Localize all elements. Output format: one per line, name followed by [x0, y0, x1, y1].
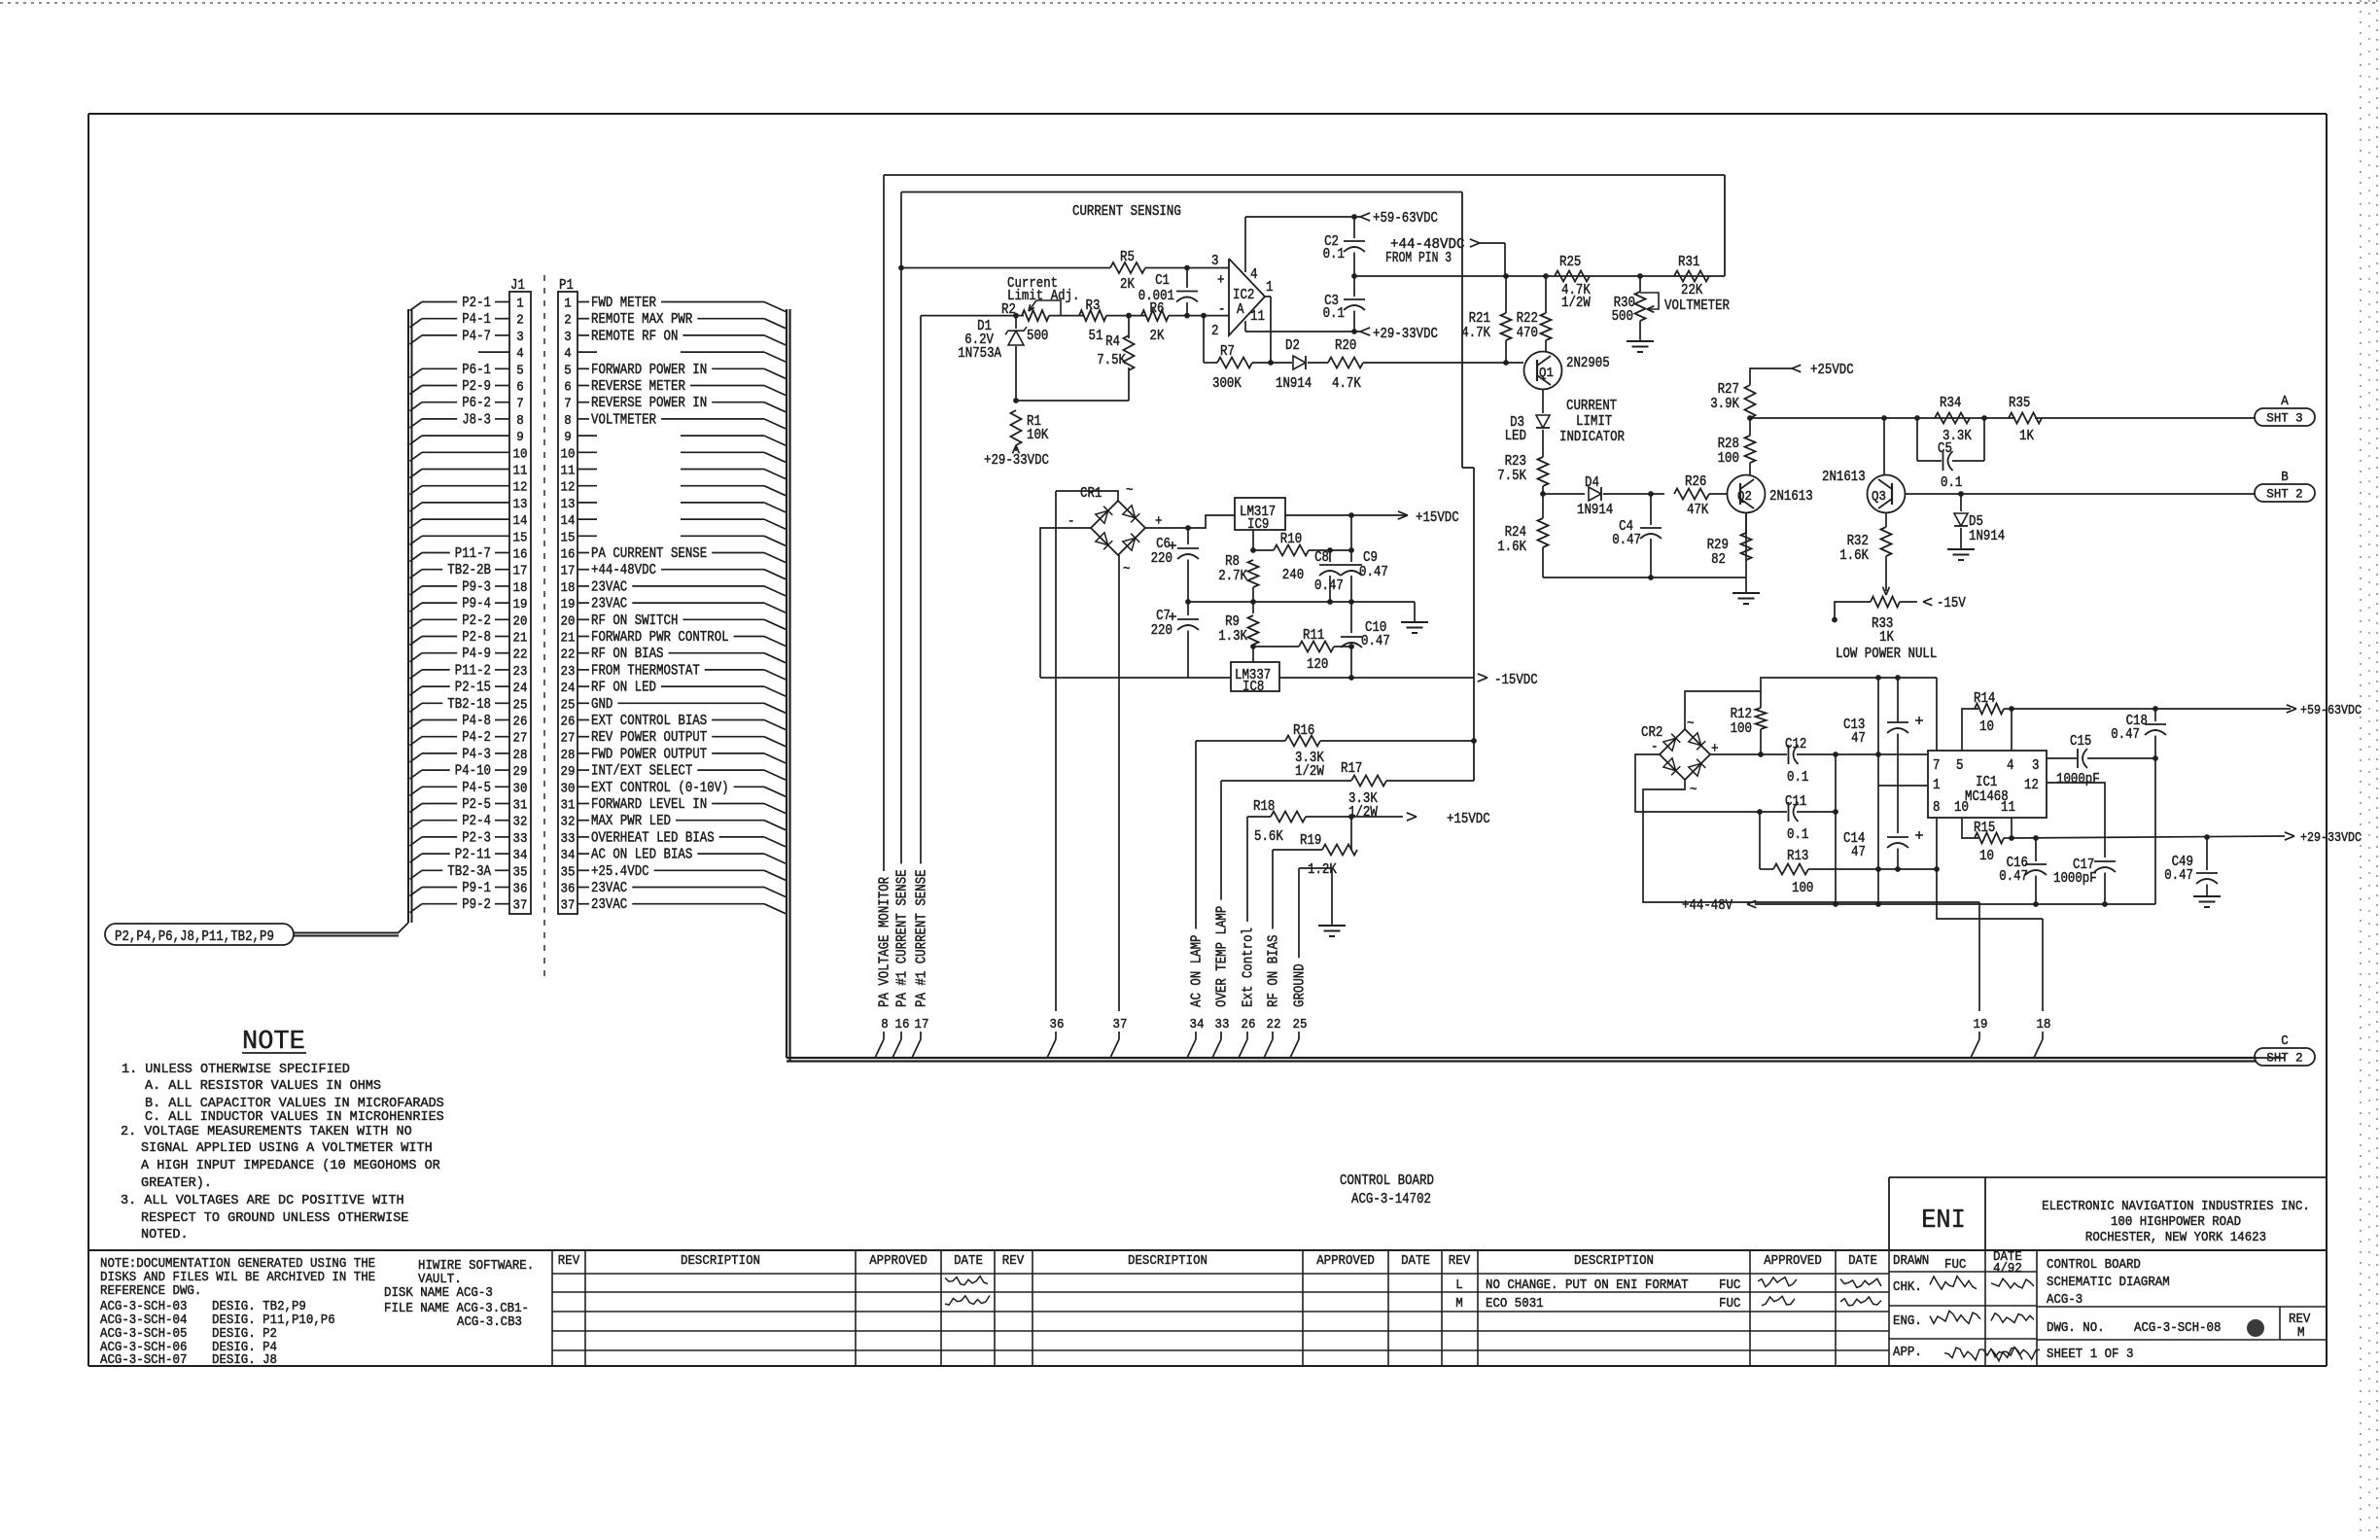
- svg-text:26: 26: [1242, 1017, 1256, 1032]
- svg-text:1: 1: [1266, 280, 1274, 296]
- svg-text:ENG.: ENG.: [1893, 1314, 1922, 1329]
- svg-text:31: 31: [561, 798, 576, 814]
- svg-text:PA #1 CURRENT SENSE: PA #1 CURRENT SENSE: [915, 869, 930, 1007]
- svg-text:8: 8: [1933, 800, 1941, 816]
- svg-text:P11-7: P11-7: [455, 546, 491, 562]
- svg-text:DESCRIPTION: DESCRIPTION: [1128, 1254, 1207, 1269]
- svg-text:P2-3: P2-3: [462, 830, 491, 846]
- svg-text:~: ~: [1690, 783, 1697, 798]
- svg-text:ROCHESTER, NEW YORK 14623: ROCHESTER, NEW YORK 14623: [2085, 1231, 2266, 1245]
- svg-text:APP.: APP.: [1893, 1346, 1922, 1360]
- svg-text:33: 33: [561, 831, 576, 847]
- svg-text:20: 20: [561, 613, 576, 629]
- svg-text:GREATER).: GREATER).: [141, 1175, 212, 1191]
- svg-text:22: 22: [513, 647, 528, 663]
- svg-text:C1: C1: [1155, 273, 1170, 289]
- svg-text:C5: C5: [1938, 441, 1952, 457]
- svg-text:LED: LED: [1505, 429, 1526, 444]
- svg-text:5: 5: [516, 363, 524, 378]
- svg-text:-15VDC: -15VDC: [1494, 673, 1538, 688]
- svg-text:9: 9: [564, 430, 572, 445]
- svg-text:1K: 1K: [1879, 630, 1894, 646]
- svg-text:~: ~: [1126, 483, 1134, 499]
- svg-text:4: 4: [516, 346, 524, 362]
- svg-text:FUC: FUC: [1944, 1258, 1966, 1273]
- svg-text:+25VDC: +25VDC: [1810, 363, 1854, 378]
- svg-text:P2,P4,P6,J8,P11,TB2,P9: P2,P4,P6,J8,P11,TB2,P9: [115, 929, 274, 945]
- svg-text:NOTED.: NOTED.: [141, 1227, 189, 1242]
- svg-text:15: 15: [513, 530, 528, 545]
- svg-text:FORWARD POWER IN: FORWARD POWER IN: [591, 363, 707, 378]
- svg-text:P9-3: P9-3: [462, 579, 491, 595]
- svg-text:Q1: Q1: [1539, 367, 1554, 381]
- svg-text:36: 36: [561, 882, 576, 897]
- svg-text:ECO 5031: ECO 5031: [1486, 1297, 1544, 1312]
- svg-text:P2-8: P2-8: [462, 630, 491, 646]
- svg-text:R26: R26: [1685, 474, 1706, 490]
- svg-text:C15: C15: [2070, 734, 2091, 750]
- svg-text:P4-3: P4-3: [462, 747, 491, 762]
- svg-text:R13: R13: [1787, 849, 1808, 864]
- svg-text:B: B: [2281, 471, 2289, 485]
- svg-text:P2-11: P2-11: [455, 848, 491, 863]
- svg-text:7.5K: 7.5K: [1497, 469, 1526, 484]
- svg-text:1: 1: [564, 297, 572, 312]
- svg-text:16: 16: [895, 1017, 910, 1032]
- svg-text:APPROVED: APPROVED: [1764, 1254, 1822, 1269]
- svg-text:C9: C9: [1363, 550, 1378, 566]
- svg-text:11: 11: [561, 464, 576, 479]
- svg-text:82: 82: [1711, 552, 1726, 568]
- svg-text:7: 7: [564, 397, 572, 412]
- svg-text:17: 17: [561, 564, 576, 579]
- svg-text:23VAC: 23VAC: [591, 881, 627, 896]
- svg-text:1: 1: [1933, 778, 1941, 793]
- svg-text:M: M: [2297, 1326, 2305, 1341]
- svg-text:P2-1: P2-1: [462, 296, 491, 311]
- svg-text:DATE: DATE: [1401, 1254, 1430, 1269]
- svg-text:AC ON LAMP: AC ON LAMP: [1190, 935, 1206, 1008]
- svg-text:R4: R4: [1105, 334, 1120, 350]
- svg-text:INDICATOR: INDICATOR: [1559, 430, 1625, 445]
- svg-text:DESIG. J8: DESIG. J8: [212, 1353, 277, 1368]
- svg-text:11: 11: [1250, 309, 1265, 325]
- svg-text:30: 30: [513, 781, 528, 796]
- svg-text:13: 13: [561, 497, 576, 512]
- svg-text:2: 2: [564, 313, 572, 329]
- svg-text:CHK.: CHK.: [1893, 1280, 1922, 1295]
- svg-text:19: 19: [1974, 1017, 1988, 1032]
- svg-text:25: 25: [1293, 1017, 1308, 1032]
- svg-text:NO CHANGE. PUT ON ENI FORMAT: NO CHANGE. PUT ON ENI FORMAT: [1486, 1278, 1689, 1293]
- svg-text:4/92: 4/92: [1993, 1262, 2022, 1277]
- svg-text:34: 34: [561, 848, 576, 863]
- svg-text:REVERSE POWER IN: REVERSE POWER IN: [591, 396, 707, 411]
- svg-text:37: 37: [1113, 1017, 1128, 1032]
- svg-text:AC ON LED BIAS: AC ON LED BIAS: [591, 848, 692, 863]
- svg-text:FROM PIN 3: FROM PIN 3: [1385, 251, 1452, 266]
- svg-text:DESIG. P11,P10,P6: DESIG. P11,P10,P6: [212, 1313, 335, 1328]
- svg-text:ACG-3-SCH-07: ACG-3-SCH-07: [100, 1353, 187, 1368]
- svg-text:500: 500: [1027, 329, 1048, 344]
- svg-text:DESCRIPTION: DESCRIPTION: [681, 1254, 760, 1269]
- svg-text:D2: D2: [1285, 338, 1300, 354]
- svg-text:SHT 2: SHT 2: [2266, 1052, 2302, 1066]
- svg-text:1.6K: 1.6K: [1839, 548, 1869, 564]
- svg-text:R11: R11: [1303, 628, 1324, 644]
- svg-text:0.47: 0.47: [1999, 869, 2028, 885]
- svg-text:22K: 22K: [1681, 283, 1703, 298]
- svg-text:16: 16: [561, 547, 576, 563]
- svg-text:C7: C7: [1156, 609, 1171, 624]
- svg-text:A: A: [1237, 302, 1244, 318]
- svg-text:32: 32: [513, 815, 528, 830]
- svg-text:Limit Adj.: Limit Adj.: [1007, 289, 1080, 304]
- svg-text:+29-33VDC: +29-33VDC: [1373, 327, 1438, 342]
- svg-text:470: 470: [1517, 326, 1538, 341]
- svg-text:12: 12: [561, 480, 576, 496]
- svg-text:3. ALL VOLTAGES ARE DC POSITIV: 3. ALL VOLTAGES ARE DC POSITIVE WITH: [121, 1193, 404, 1208]
- svg-text:PA VOLTAGE MONITOR: PA VOLTAGE MONITOR: [878, 877, 893, 1007]
- svg-text:ACG-3-14702: ACG-3-14702: [1351, 1192, 1431, 1207]
- svg-text:47: 47: [1851, 731, 1866, 747]
- svg-text:18: 18: [2037, 1017, 2051, 1032]
- svg-text:D4: D4: [1585, 475, 1599, 491]
- svg-text:10K: 10K: [1027, 428, 1049, 443]
- svg-text:P4-9: P4-9: [462, 647, 491, 662]
- svg-text:LOW POWER NULL: LOW POWER NULL: [1836, 647, 1937, 662]
- svg-text:24: 24: [513, 681, 528, 696]
- svg-text:240: 240: [1282, 568, 1304, 583]
- svg-text:ACG-3: ACG-3: [2047, 1293, 2082, 1308]
- svg-text:HIWIRE SOFTWARE.: HIWIRE SOFTWARE.: [418, 1259, 534, 1274]
- svg-text:IC2: IC2: [1233, 288, 1254, 303]
- svg-text:FWD METER: FWD METER: [591, 296, 656, 311]
- svg-text:21: 21: [513, 631, 528, 647]
- svg-text:P4-1: P4-1: [462, 312, 491, 328]
- svg-text:ENI: ENI: [1921, 1207, 1966, 1236]
- svg-text:6: 6: [564, 380, 572, 396]
- svg-text:IC8: IC8: [1242, 680, 1264, 695]
- svg-text:R32: R32: [1847, 534, 1869, 549]
- svg-text:27: 27: [561, 731, 576, 747]
- svg-text:10: 10: [1954, 800, 1969, 816]
- svg-text:21: 21: [561, 631, 576, 647]
- svg-text:A HIGH INPUT IMPEDANCE (10 MEG: A HIGH INPUT IMPEDANCE (10 MEGOHOMS OR: [141, 1158, 440, 1173]
- svg-text:P2-5: P2-5: [462, 797, 491, 813]
- svg-text:100 HIGHPOWER ROAD: 100 HIGHPOWER ROAD: [2111, 1215, 2241, 1230]
- svg-text:36: 36: [1050, 1017, 1065, 1032]
- svg-text:+59-63VDC: +59-63VDC: [1373, 211, 1438, 227]
- svg-text:9: 9: [516, 430, 524, 445]
- svg-text:22: 22: [561, 647, 576, 663]
- svg-text:0.47: 0.47: [2111, 727, 2140, 743]
- svg-text:51: 51: [1089, 329, 1103, 344]
- svg-text:1N914: 1N914: [1577, 503, 1613, 518]
- svg-text:37: 37: [513, 898, 528, 914]
- svg-text:RF ON LED: RF ON LED: [591, 681, 656, 696]
- svg-text:REV POWER OUTPUT: REV POWER OUTPUT: [591, 730, 707, 746]
- svg-text:31: 31: [513, 798, 528, 814]
- svg-text:CURRENT: CURRENT: [1566, 399, 1617, 414]
- svg-text:ACG-3-SCH-03: ACG-3-SCH-03: [100, 1300, 187, 1314]
- svg-text:P6-1: P6-1: [462, 363, 491, 378]
- svg-text:+29-33VDC: +29-33VDC: [2300, 831, 2362, 846]
- svg-text:10: 10: [561, 446, 576, 462]
- svg-text:0.47: 0.47: [1314, 578, 1344, 594]
- svg-text:P4-10: P4-10: [455, 764, 491, 780]
- svg-text:33: 33: [1215, 1017, 1230, 1032]
- svg-text:DATE: DATE: [1848, 1254, 1877, 1269]
- svg-text:C. ALL INDUCTOR VALUES IN MICR: C. ALL INDUCTOR VALUES IN MICROHENRIES: [145, 1109, 444, 1125]
- svg-text:APPROVED: APPROVED: [1316, 1254, 1375, 1269]
- svg-text:INT/EXT SELECT: INT/EXT SELECT: [591, 764, 693, 780]
- svg-text:REFERENCE DWG.: REFERENCE DWG.: [100, 1284, 201, 1299]
- svg-text:1.3K: 1.3K: [1218, 629, 1247, 645]
- svg-text:DISK NAME ACG-3: DISK NAME ACG-3: [384, 1286, 493, 1301]
- svg-text:P9-1: P9-1: [462, 881, 491, 896]
- svg-text:3: 3: [564, 330, 572, 345]
- svg-text:+15VDC: +15VDC: [1416, 510, 1459, 526]
- svg-text:1000pF: 1000pF: [2056, 772, 2100, 787]
- svg-text:14: 14: [561, 513, 576, 529]
- svg-text:ACG-3-SCH-08: ACG-3-SCH-08: [2134, 1321, 2221, 1336]
- svg-text:1/2W: 1/2W: [1561, 296, 1591, 311]
- svg-text:R9: R9: [1225, 614, 1240, 630]
- svg-text:1. UNLESS OTHERWISE SPECIFIED: 1. UNLESS OTHERWISE SPECIFIED: [122, 1062, 350, 1077]
- svg-text:-: -: [1218, 300, 1226, 318]
- svg-text:NOTE:DOCUMENTATION GENERATED U: NOTE:DOCUMENTATION GENERATED USING THE: [100, 1257, 375, 1272]
- svg-text:D5: D5: [1969, 514, 1983, 530]
- svg-text:1/2W: 1/2W: [1295, 764, 1324, 780]
- svg-text:P1: P1: [559, 278, 574, 294]
- svg-text:300K: 300K: [1212, 376, 1242, 392]
- svg-text:SHT 2: SHT 2: [2266, 488, 2302, 502]
- svg-text:DESIG. TB2,P9: DESIG. TB2,P9: [212, 1300, 306, 1314]
- svg-text:CURRENT SENSING: CURRENT SENSING: [1072, 204, 1181, 220]
- svg-text:R19: R19: [1300, 833, 1321, 849]
- svg-text:+44-48VDC: +44-48VDC: [591, 563, 656, 578]
- svg-text:CONTROL BOARD: CONTROL BOARD: [2047, 1258, 2141, 1273]
- svg-text:VOLTMETER: VOLTMETER: [591, 412, 656, 428]
- svg-text:~: ~: [1687, 717, 1695, 732]
- svg-text:8: 8: [516, 413, 524, 429]
- svg-text:P2-9: P2-9: [462, 379, 491, 395]
- svg-text:OVERHEAT LED BIAS: OVERHEAT LED BIAS: [591, 830, 715, 846]
- svg-text:2: 2: [1211, 324, 1219, 339]
- svg-text:DWG. NO.: DWG. NO.: [2047, 1321, 2105, 1336]
- svg-text:5: 5: [1956, 758, 1964, 774]
- svg-text:FORWARD PWR CONTROL: FORWARD PWR CONTROL: [591, 630, 729, 646]
- svg-text:220: 220: [1151, 623, 1172, 639]
- svg-text:+44-48V: +44-48V: [1682, 898, 1732, 914]
- svg-text:0.1: 0.1: [1323, 306, 1345, 322]
- svg-text:EXT CONTROL BIAS: EXT CONTROL BIAS: [591, 714, 707, 729]
- svg-text:6: 6: [516, 380, 524, 396]
- svg-text:R3: R3: [1086, 298, 1101, 314]
- svg-text:MAX PWR LED: MAX PWR LED: [591, 814, 671, 829]
- svg-text:34: 34: [513, 848, 528, 863]
- svg-text:+25.4VDC: +25.4VDC: [591, 864, 649, 880]
- svg-text:DRAWN: DRAWN: [1893, 1254, 1929, 1269]
- svg-text:100: 100: [1792, 881, 1813, 896]
- svg-text:C12: C12: [1785, 737, 1806, 752]
- svg-text:R27: R27: [1718, 382, 1739, 398]
- svg-text:36: 36: [513, 882, 528, 897]
- svg-text:14: 14: [513, 513, 528, 529]
- svg-text:3.9K: 3.9K: [1710, 397, 1739, 412]
- svg-text:PA #1 CURRENT SENSE: PA #1 CURRENT SENSE: [895, 869, 911, 1007]
- svg-text:RF ON BIAS: RF ON BIAS: [591, 647, 664, 662]
- svg-text:RF ON SWITCH: RF ON SWITCH: [591, 613, 678, 629]
- svg-text:C11: C11: [1785, 794, 1806, 810]
- svg-text:32: 32: [561, 815, 576, 830]
- svg-text:1000pF: 1000pF: [2053, 871, 2097, 887]
- svg-text:26: 26: [561, 715, 576, 730]
- svg-text:Q3: Q3: [1872, 490, 1886, 505]
- svg-text:2. VOLTAGE MEASUREMENTS TAKEN: 2. VOLTAGE MEASUREMENTS TAKEN WITH NO: [121, 1124, 412, 1139]
- svg-text:7: 7: [1933, 758, 1941, 774]
- svg-text:SIGNAL APPLIED USING A VOLTMET: SIGNAL APPLIED USING A VOLTMETER WITH: [141, 1140, 433, 1156]
- svg-text:3: 3: [516, 330, 524, 345]
- svg-text:20: 20: [513, 613, 528, 629]
- svg-text:SCHEMATIC DIAGRAM: SCHEMATIC DIAGRAM: [2047, 1276, 2170, 1290]
- svg-text:23: 23: [561, 664, 576, 680]
- svg-text:12: 12: [513, 480, 528, 496]
- svg-text:P2-2: P2-2: [462, 613, 491, 629]
- svg-text:FUC: FUC: [1719, 1278, 1740, 1293]
- svg-text:APPROVED: APPROVED: [869, 1254, 927, 1269]
- svg-text:0.47: 0.47: [1359, 565, 1388, 580]
- svg-text:TB2-18: TB2-18: [447, 697, 491, 713]
- svg-text:4: 4: [1250, 267, 1258, 283]
- svg-text:RESPECT TO GROUND UNLESS OTHER: RESPECT TO GROUND UNLESS OTHERWISE: [141, 1210, 408, 1226]
- svg-text:R29: R29: [1707, 538, 1729, 553]
- svg-text:120: 120: [1307, 657, 1328, 673]
- svg-text:23VAC: 23VAC: [591, 897, 627, 913]
- svg-text:L: L: [1455, 1278, 1463, 1293]
- svg-text:2.7K: 2.7K: [1218, 569, 1247, 584]
- svg-text:4.7K: 4.7K: [1461, 326, 1490, 341]
- svg-text:RF ON BIAS: RF ON BIAS: [1267, 935, 1282, 1008]
- svg-text:SHEET 1 OF 3: SHEET 1 OF 3: [2047, 1347, 2133, 1362]
- svg-text:R5: R5: [1120, 250, 1135, 265]
- svg-text:R17: R17: [1341, 761, 1362, 777]
- svg-text:R15: R15: [1974, 821, 1995, 836]
- svg-text:7: 7: [516, 397, 524, 412]
- svg-text:P9-4: P9-4: [462, 597, 491, 612]
- svg-text:100: 100: [1718, 451, 1739, 467]
- svg-text:34: 34: [1190, 1017, 1205, 1032]
- svg-text:IC9: IC9: [1247, 517, 1269, 533]
- svg-text:DESIG. P2: DESIG. P2: [212, 1327, 277, 1342]
- svg-text:REV: REV: [558, 1254, 580, 1269]
- svg-text:~: ~: [1123, 562, 1131, 577]
- svg-text:23VAC: 23VAC: [591, 579, 627, 595]
- svg-text:3: 3: [1211, 254, 1219, 269]
- svg-text:47: 47: [1851, 845, 1866, 860]
- svg-text:1.6K: 1.6K: [1497, 540, 1526, 555]
- svg-text:EXT CONTROL (0-10V): EXT CONTROL (0-10V): [591, 781, 729, 796]
- svg-text:0.001: 0.001: [1138, 289, 1174, 304]
- svg-text:12: 12: [2024, 778, 2039, 793]
- svg-text:29: 29: [513, 764, 528, 780]
- svg-text:17: 17: [513, 564, 528, 579]
- svg-text:REMOTE MAX PWR: REMOTE MAX PWR: [591, 312, 693, 328]
- svg-text:19: 19: [561, 597, 576, 612]
- svg-text:2: 2: [516, 313, 524, 329]
- svg-text:R24: R24: [1505, 525, 1526, 541]
- svg-text:TB2-2B: TB2-2B: [447, 563, 491, 578]
- svg-text:16: 16: [513, 547, 528, 563]
- svg-text:4: 4: [564, 346, 572, 362]
- svg-text:PA CURRENT SENSE: PA CURRENT SENSE: [591, 546, 707, 562]
- svg-text:A. ALL RESISTOR VALUES IN OHMS: A. ALL RESISTOR VALUES IN OHMS: [145, 1078, 381, 1094]
- svg-text:R31: R31: [1678, 255, 1699, 270]
- svg-text:IC1: IC1: [1976, 775, 1997, 790]
- svg-text:P2-4: P2-4: [462, 814, 491, 829]
- svg-text:VOLTMETER: VOLTMETER: [1664, 298, 1730, 314]
- svg-text:18: 18: [513, 580, 528, 596]
- svg-text:FILE NAME ACG-3.CB1-: FILE NAME ACG-3.CB1-: [384, 1302, 529, 1316]
- svg-text:-: -: [1651, 739, 1659, 755]
- svg-text:R25: R25: [1559, 255, 1581, 270]
- svg-text:P4-7: P4-7: [462, 329, 491, 344]
- svg-text:C6: C6: [1156, 537, 1171, 552]
- svg-text:C: C: [2281, 1034, 2289, 1049]
- svg-text:0.1: 0.1: [1787, 770, 1808, 786]
- svg-text:FORWARD LEVEL IN: FORWARD LEVEL IN: [591, 797, 707, 813]
- svg-text:0.1: 0.1: [1787, 827, 1808, 843]
- svg-text:DESCRIPTION: DESCRIPTION: [1574, 1254, 1654, 1269]
- svg-text:REVERSE METER: REVERSE METER: [591, 379, 685, 395]
- svg-text:7.5K: 7.5K: [1097, 353, 1126, 368]
- svg-text:R20: R20: [1335, 338, 1356, 354]
- svg-text:FROM THERMOSTAT: FROM THERMOSTAT: [591, 663, 700, 679]
- svg-text:+15VDC: +15VDC: [1447, 812, 1490, 827]
- svg-text:1N914: 1N914: [1969, 529, 2005, 544]
- svg-text:10: 10: [513, 446, 528, 462]
- svg-text:3: 3: [2032, 758, 2040, 774]
- svg-text:R23: R23: [1505, 454, 1526, 470]
- svg-text:+59-63VDC: +59-63VDC: [2300, 704, 2362, 718]
- svg-text:500: 500: [1612, 309, 1633, 325]
- svg-text:REV: REV: [2289, 1312, 2311, 1327]
- svg-text:33: 33: [513, 831, 528, 847]
- svg-text:ACG-3-SCH-05: ACG-3-SCH-05: [100, 1327, 187, 1342]
- svg-text:1: 1: [516, 297, 524, 312]
- svg-text:25: 25: [513, 697, 528, 713]
- svg-text:R8: R8: [1225, 554, 1240, 570]
- svg-text:1N753A: 1N753A: [958, 346, 1001, 362]
- svg-text:10: 10: [1979, 849, 1994, 864]
- svg-text:VAULT.: VAULT.: [418, 1273, 462, 1287]
- svg-text:0.47: 0.47: [2164, 868, 2193, 884]
- svg-text:5: 5: [564, 363, 572, 378]
- svg-text:LIMIT: LIMIT: [1576, 414, 1612, 430]
- svg-text:OVER TEMP LAMP: OVER TEMP LAMP: [1215, 906, 1231, 1007]
- svg-text:A: A: [2281, 395, 2289, 409]
- svg-text:1K: 1K: [2019, 429, 2034, 444]
- svg-text:ACG-3.CB3: ACG-3.CB3: [457, 1315, 522, 1330]
- svg-text:11: 11: [2001, 800, 2015, 816]
- svg-text:R18: R18: [1253, 799, 1275, 815]
- svg-text:1.2K: 1.2K: [1308, 862, 1337, 878]
- svg-text:GND: GND: [591, 697, 612, 713]
- svg-text:24: 24: [561, 681, 576, 696]
- svg-text:8: 8: [564, 413, 572, 429]
- svg-text:FWD POWER OUTPUT: FWD POWER OUTPUT: [591, 747, 707, 762]
